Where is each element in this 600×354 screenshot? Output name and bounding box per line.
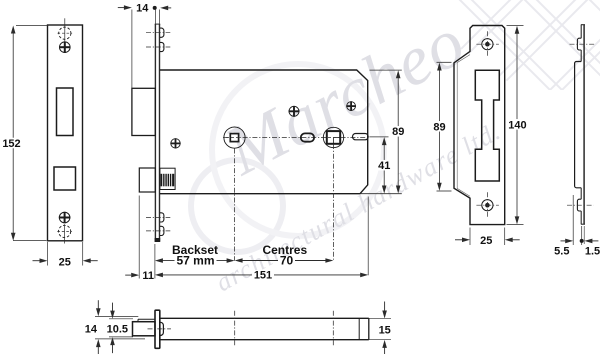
svg-text:15: 15 xyxy=(379,325,391,337)
svg-text:1.5: 1.5 xyxy=(585,246,600,258)
svg-text:89: 89 xyxy=(392,126,404,138)
svg-text:14: 14 xyxy=(136,3,149,15)
svg-text:151: 151 xyxy=(254,270,272,282)
svg-text:70: 70 xyxy=(280,253,294,267)
svg-text:11: 11 xyxy=(142,270,154,282)
svg-text:41: 41 xyxy=(378,160,390,172)
svg-text:57 mm: 57 mm xyxy=(176,253,214,267)
svg-text:10.5: 10.5 xyxy=(107,323,128,335)
svg-text:140: 140 xyxy=(508,119,526,131)
svg-text:5.5: 5.5 xyxy=(554,246,569,258)
svg-text:25: 25 xyxy=(480,235,492,247)
svg-text:152: 152 xyxy=(2,138,20,150)
svg-text:14: 14 xyxy=(85,323,98,335)
svg-text:25: 25 xyxy=(59,256,71,268)
svg-text:89: 89 xyxy=(433,121,445,133)
